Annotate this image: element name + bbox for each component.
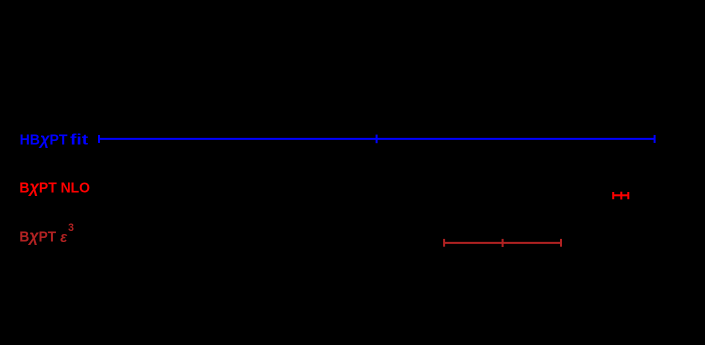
label BχPT NLO [19, 178, 90, 197]
svg-text:HBχPT: HBχPT [20, 129, 68, 148]
label BχPT ε³ [19, 222, 74, 246]
svg-text:ε: ε [60, 230, 68, 246]
error bar HBχPT fit [99, 135, 655, 144]
svg-text:BχPT: BχPT [19, 226, 56, 245]
svg-text:fit: fit [70, 132, 88, 148]
label HBχPT fit [20, 129, 89, 148]
svg-text:3: 3 [68, 222, 74, 234]
error bar BχPT ε³ [444, 239, 561, 247]
error bar BχPT NLO [613, 192, 628, 200]
svg-text:BχPT NLO: BχPT NLO [19, 178, 90, 197]
